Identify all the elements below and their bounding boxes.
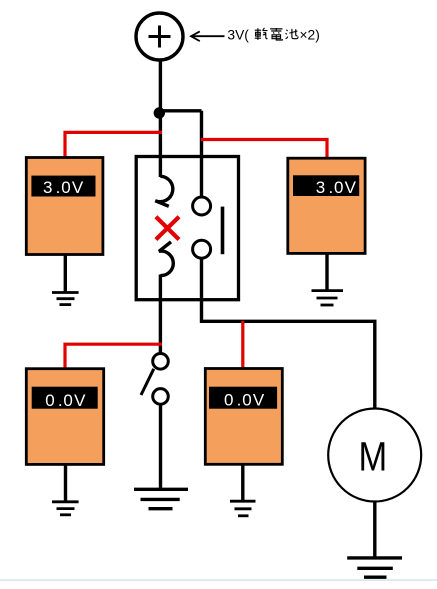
svg-text:0.0V: 0.0V [45,391,86,410]
svg-text:3.0V: 3.0V [316,178,357,197]
svg-text:0.0V: 0.0V [224,391,265,410]
svg-text:M: M [359,435,388,480]
svg-text:3.0V: 3.0V [43,178,84,197]
svg-text:3V(: 3V( [227,27,249,42]
svg-text:×2): ×2) [300,27,320,42]
